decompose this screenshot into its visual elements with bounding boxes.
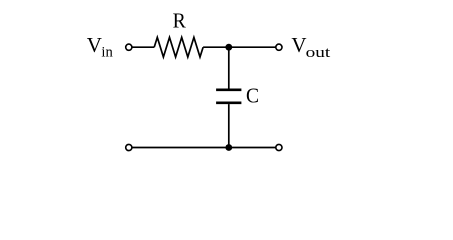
node junction (top, resistor/capacitor/Vout) (225, 44, 232, 51)
terminal Vout (top-right open circle) (276, 44, 282, 50)
capacitor C (216, 90, 241, 103)
wire (top junction down to capacitor) (228, 47, 230, 88)
svg-text:in: in (101, 45, 113, 61)
terminal (bottom-left open circle) (126, 144, 132, 150)
resistor R (154, 37, 203, 57)
wire (bottom rail) (132, 147, 275, 149)
svg-text:out: out (306, 45, 332, 61)
svg-text:V: V (291, 33, 306, 57)
label Vin (87, 33, 113, 61)
terminal (bottom-right open circle) (276, 144, 282, 150)
svg-text:R: R (173, 9, 186, 33)
svg-text:V: V (87, 33, 102, 57)
wire (Vin terminal to resistor) (132, 46, 154, 48)
terminal Vin (top-left open circle) (126, 44, 132, 50)
wire (resistor to Vout terminal) (203, 46, 276, 48)
svg-text:C: C (246, 83, 259, 107)
node junction (bottom, capacitor return) (225, 144, 232, 151)
label Vout (291, 33, 331, 61)
wire (capacitor down to bottom junction) (228, 104, 230, 147)
